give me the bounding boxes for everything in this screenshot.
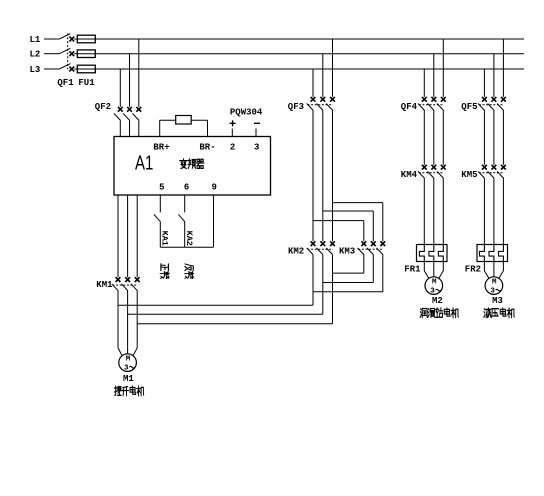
wire FR2 out 3 — [499, 262, 504, 279]
svg-text:QF1: QF1 — [57, 78, 74, 88]
wire KM3 out 3 — [382, 255, 384, 292]
wire L1 to QF3 pole 3 — [332, 39, 334, 97]
wire terminal 2 stub — [231, 129, 233, 137]
breaker QF4 link — [419, 104, 444, 106]
breaker QF3 link — [308, 104, 334, 106]
label 润滑站电机 — [420, 308, 458, 318]
svg-text:QF2: QF2 — [95, 102, 111, 112]
breaker QF1 pole L3 — [59, 64, 74, 72]
wire L1 to QF5 pole 3 — [502, 39, 504, 97]
wire KM3.2 cross to phase2 — [323, 282, 374, 284]
wire L2 to QF5 pole 2 — [493, 54, 495, 97]
label A1 — [135, 151, 153, 174]
contactor KM3 pole 2 — [367, 241, 376, 255]
svg-text:M1: M1 — [123, 374, 134, 384]
svg-text:BR+: BR+ — [153, 142, 169, 152]
wire L1 feed — [44, 38, 59, 40]
label 正转 — [160, 264, 169, 279]
wire M1 lead 1 — [118, 348, 122, 356]
terminal - mark — [254, 122, 260, 124]
fuse FU1 pole L2 — [77, 50, 95, 58]
wire KA1 down — [159, 222, 161, 247]
motor M2 — [425, 277, 443, 296]
wire KM1 out 1 — [117, 291, 119, 348]
resistor braking R — [176, 116, 192, 125]
wire L3 to QF5 pole 1 — [483, 69, 485, 97]
svg-text:6: 6 — [184, 183, 189, 193]
wire bypass rail 1 — [118, 304, 313, 306]
wire branch to KM3 pole 3 — [382, 203, 384, 242]
terminal + mark — [230, 120, 236, 126]
wire M1 lead 3 — [133, 348, 137, 356]
wire branch QF3.1 horizontal — [313, 220, 364, 222]
svg-text:KA1: KA1 — [160, 231, 170, 246]
svg-text:FR2: FR2 — [465, 264, 481, 274]
contactor KM2 pole 2 — [317, 241, 326, 255]
contactor KM4 pole 3 — [437, 165, 446, 179]
breaker QF2 pole 1 — [114, 107, 123, 121]
wire L3 to QF3 pole 1 — [312, 69, 314, 97]
breaker QF3 pole 3 — [326, 97, 335, 111]
label 反转 — [185, 264, 194, 279]
breaker QF5 pole 3 — [497, 97, 506, 111]
wire KM3 out 1 — [363, 255, 365, 273]
thermal relay FR1 box — [417, 245, 448, 262]
svg-text:KM3: KM3 — [339, 247, 355, 257]
wire resistor left — [160, 119, 176, 121]
wire L3 feed — [44, 68, 59, 70]
wire L3 to fuse — [74, 68, 77, 70]
svg-text:BR-: BR- — [199, 142, 215, 152]
svg-text:KM2: KM2 — [288, 247, 304, 257]
contactor KM2 pole 3 — [326, 241, 335, 255]
breaker QF1 mechanical link — [67, 34, 69, 70]
wire L3 to QF4 pole 1 — [423, 69, 425, 97]
breaker QF4 pole 1 — [418, 97, 427, 111]
wire KA common rail — [160, 246, 213, 248]
contactor KM2 link — [308, 248, 334, 250]
breaker QF3 pole 2 — [317, 97, 326, 111]
wire KM4 to FR1 pole 2 — [433, 178, 435, 244]
svg-text:3: 3 — [124, 365, 129, 373]
svg-text:M3: M3 — [492, 296, 503, 306]
wire FR1 out 3 — [439, 262, 444, 279]
wire QF4 to KM4 pole 2 — [433, 111, 435, 165]
wire QF5 to KM5 pole 2 — [493, 111, 495, 165]
wire KM3 out 2 — [372, 255, 374, 283]
wire A1 out 3 — [136, 195, 138, 277]
wire KM3.3 cross to phase1 — [313, 291, 383, 293]
thermal element FR2.2 — [489, 245, 494, 262]
contactor KM1 pole 1 — [112, 277, 121, 291]
label 提升电机 — [114, 386, 144, 396]
svg-text:QF3: QF3 — [288, 102, 304, 112]
wire QF2 pole 2 to A1 — [129, 121, 131, 137]
wire BR- down — [207, 120, 209, 136]
wire L1 to QF4 pole 3 — [442, 39, 444, 97]
contactor KM2 pole 1 — [307, 241, 316, 255]
svg-text:PQW304: PQW304 — [230, 108, 263, 118]
contactor KM1 link — [113, 284, 138, 286]
wire KA2 down — [184, 222, 186, 247]
wire BR+ up — [159, 120, 161, 136]
svg-text:M: M — [126, 356, 131, 364]
wire KM2 out 1 — [312, 255, 314, 305]
wire L2 to QF4 pole 2 — [433, 54, 435, 97]
label 液压电机 — [484, 308, 515, 318]
svg-text:KM4: KM4 — [401, 170, 418, 180]
svg-text:3: 3 — [254, 142, 259, 152]
wire pin6 down — [184, 195, 186, 212]
thermal relay FR2 box — [477, 245, 508, 262]
svg-text:KM5: KM5 — [461, 170, 477, 180]
svg-text:QF5: QF5 — [461, 102, 477, 112]
wire FR2 out 1 — [484, 262, 489, 279]
fuse FU1 pole L1 — [77, 35, 95, 43]
contactor KM1 pole 3 — [131, 277, 140, 291]
thermal element FR1.1 — [419, 245, 424, 262]
wire QF2 pole 3 to A1 — [138, 121, 140, 137]
wire KM3.1 cross to phase3 — [333, 272, 364, 274]
wire A1 out 2 — [127, 195, 129, 277]
thermal element FR2.1 — [480, 245, 485, 262]
breaker QF5 pole 1 — [478, 97, 487, 111]
wire KM5 to FR2 pole 2 — [493, 178, 495, 244]
wire KM1 out 2 — [127, 291, 129, 354]
wire L2 feed — [44, 53, 59, 55]
svg-text:FU1: FU1 — [78, 78, 95, 88]
wire bypass rail 2 — [128, 313, 323, 315]
contactor KM1 pole 2 — [121, 277, 130, 291]
wire FR1 out 1 — [424, 262, 429, 279]
svg-text:9: 9 — [211, 183, 216, 193]
contactor KM3 pole 3 — [377, 241, 386, 255]
wire A1 out 1 — [117, 195, 119, 277]
wire KM5 to FR2 pole 1 — [483, 178, 485, 244]
thermal element FR1.2 — [429, 245, 434, 262]
svg-text:KA2: KA2 — [184, 231, 194, 246]
svg-text:M2: M2 — [432, 296, 443, 306]
svg-text:L2: L2 — [30, 50, 41, 60]
wire QF5 to KM5 pole 1 — [483, 111, 485, 165]
label KA1 — [160, 231, 170, 246]
svg-text:5: 5 — [159, 183, 164, 193]
wire branch to KM3 pole 1 — [363, 221, 365, 242]
wire L2 to fuse — [74, 53, 77, 55]
wire L1 to QF2 pole 3 — [138, 39, 140, 107]
wire terminal 3 stub — [255, 129, 257, 137]
wire L2 to QF2 pole 2 — [129, 54, 131, 107]
wire FR2 out 2 — [493, 262, 495, 277]
contactor KM5 pole 1 — [478, 165, 487, 179]
wire QF3 pole 3 to KM2 — [332, 111, 334, 242]
contact KA2 — [178, 214, 185, 222]
wire QF4 to KM4 pole 1 — [423, 111, 425, 165]
breaker QF2 pole 2 — [123, 107, 132, 121]
thermal element FR2.3 — [499, 245, 504, 262]
wire KM2 out 2 — [322, 255, 324, 314]
wire KM4 to FR1 pole 3 — [442, 178, 444, 244]
wire FR1 out 2 — [433, 262, 435, 277]
wire bypass rail 3 — [137, 323, 332, 325]
wire QF3 pole 2 to KM2 — [322, 111, 324, 242]
contactor KM4 pole 2 — [428, 165, 437, 179]
svg-text:KM1: KM1 — [96, 280, 113, 290]
svg-text:A1: A1 — [135, 151, 153, 174]
contactor KM3 pole 1 — [358, 241, 367, 255]
wire bus L1 — [95, 38, 524, 40]
thermal element FR1.3 — [438, 245, 443, 262]
label 变频器 — [180, 159, 204, 169]
label KA2 — [184, 231, 194, 246]
breaker QF1 pole L1 — [59, 34, 74, 42]
breaker QF4 pole 3 — [437, 97, 446, 111]
wire QF5 to KM5 pole 3 — [502, 111, 504, 165]
wire resistor right — [191, 119, 207, 121]
svg-text:L1: L1 — [30, 35, 41, 45]
inverter A1 box — [114, 137, 271, 196]
svg-text:L3: L3 — [30, 65, 41, 75]
svg-text:M: M — [432, 279, 437, 287]
wire bus L2 — [95, 53, 524, 55]
svg-text:QF4: QF4 — [401, 102, 418, 112]
contactor KM5 pole 3 — [497, 165, 506, 179]
breaker QF2 pole 3 — [133, 107, 142, 121]
svg-text:2: 2 — [230, 142, 235, 152]
contactor KM4 link — [419, 172, 444, 174]
wire KM2 out 3 — [332, 255, 334, 324]
contactor KM5 pole 2 — [488, 165, 497, 179]
fuse FU1 pole L3 — [77, 65, 95, 73]
contactor KM3 link — [358, 248, 383, 250]
wire L1 to fuse — [74, 38, 77, 40]
wire QF2 pole 1 to A1 — [119, 121, 121, 137]
contact KA1 — [154, 214, 161, 222]
wire KM5 to FR2 pole 3 — [502, 178, 504, 244]
wire QF3 pole 1 to KM2 — [312, 111, 314, 242]
breaker QF3 pole 1 — [307, 97, 316, 111]
wire branch QF3.3 horizontal — [333, 202, 383, 204]
wire bus L3 — [95, 68, 524, 70]
wire pin9 down — [213, 195, 215, 247]
wire KM4 to FR1 pole 1 — [423, 178, 425, 244]
wire QF4 to KM4 pole 3 — [442, 111, 444, 165]
wire L2 to QF3 pole 2 — [322, 54, 324, 97]
motor M3 — [485, 277, 503, 296]
wire branch QF3.2 horizontal — [323, 210, 374, 212]
contactor KM5 link — [479, 172, 504, 174]
wire L3 to QF2 pole 1 — [119, 69, 121, 107]
wire branch to KM3 pole 2 — [372, 211, 374, 241]
breaker QF1 pole L2 — [59, 48, 74, 56]
breaker QF5 link — [479, 104, 504, 106]
svg-text:3: 3 — [490, 288, 495, 296]
wire KM1 out 3 — [136, 291, 138, 348]
motor M1 — [119, 354, 137, 373]
contactor KM4 pole 1 — [418, 165, 427, 179]
svg-text:FR1: FR1 — [404, 264, 421, 274]
svg-text:M: M — [492, 279, 497, 287]
wire pin5 down — [159, 195, 161, 212]
breaker QF4 pole 2 — [428, 97, 437, 111]
breaker QF5 pole 2 — [488, 97, 497, 111]
svg-text:3: 3 — [430, 288, 435, 296]
